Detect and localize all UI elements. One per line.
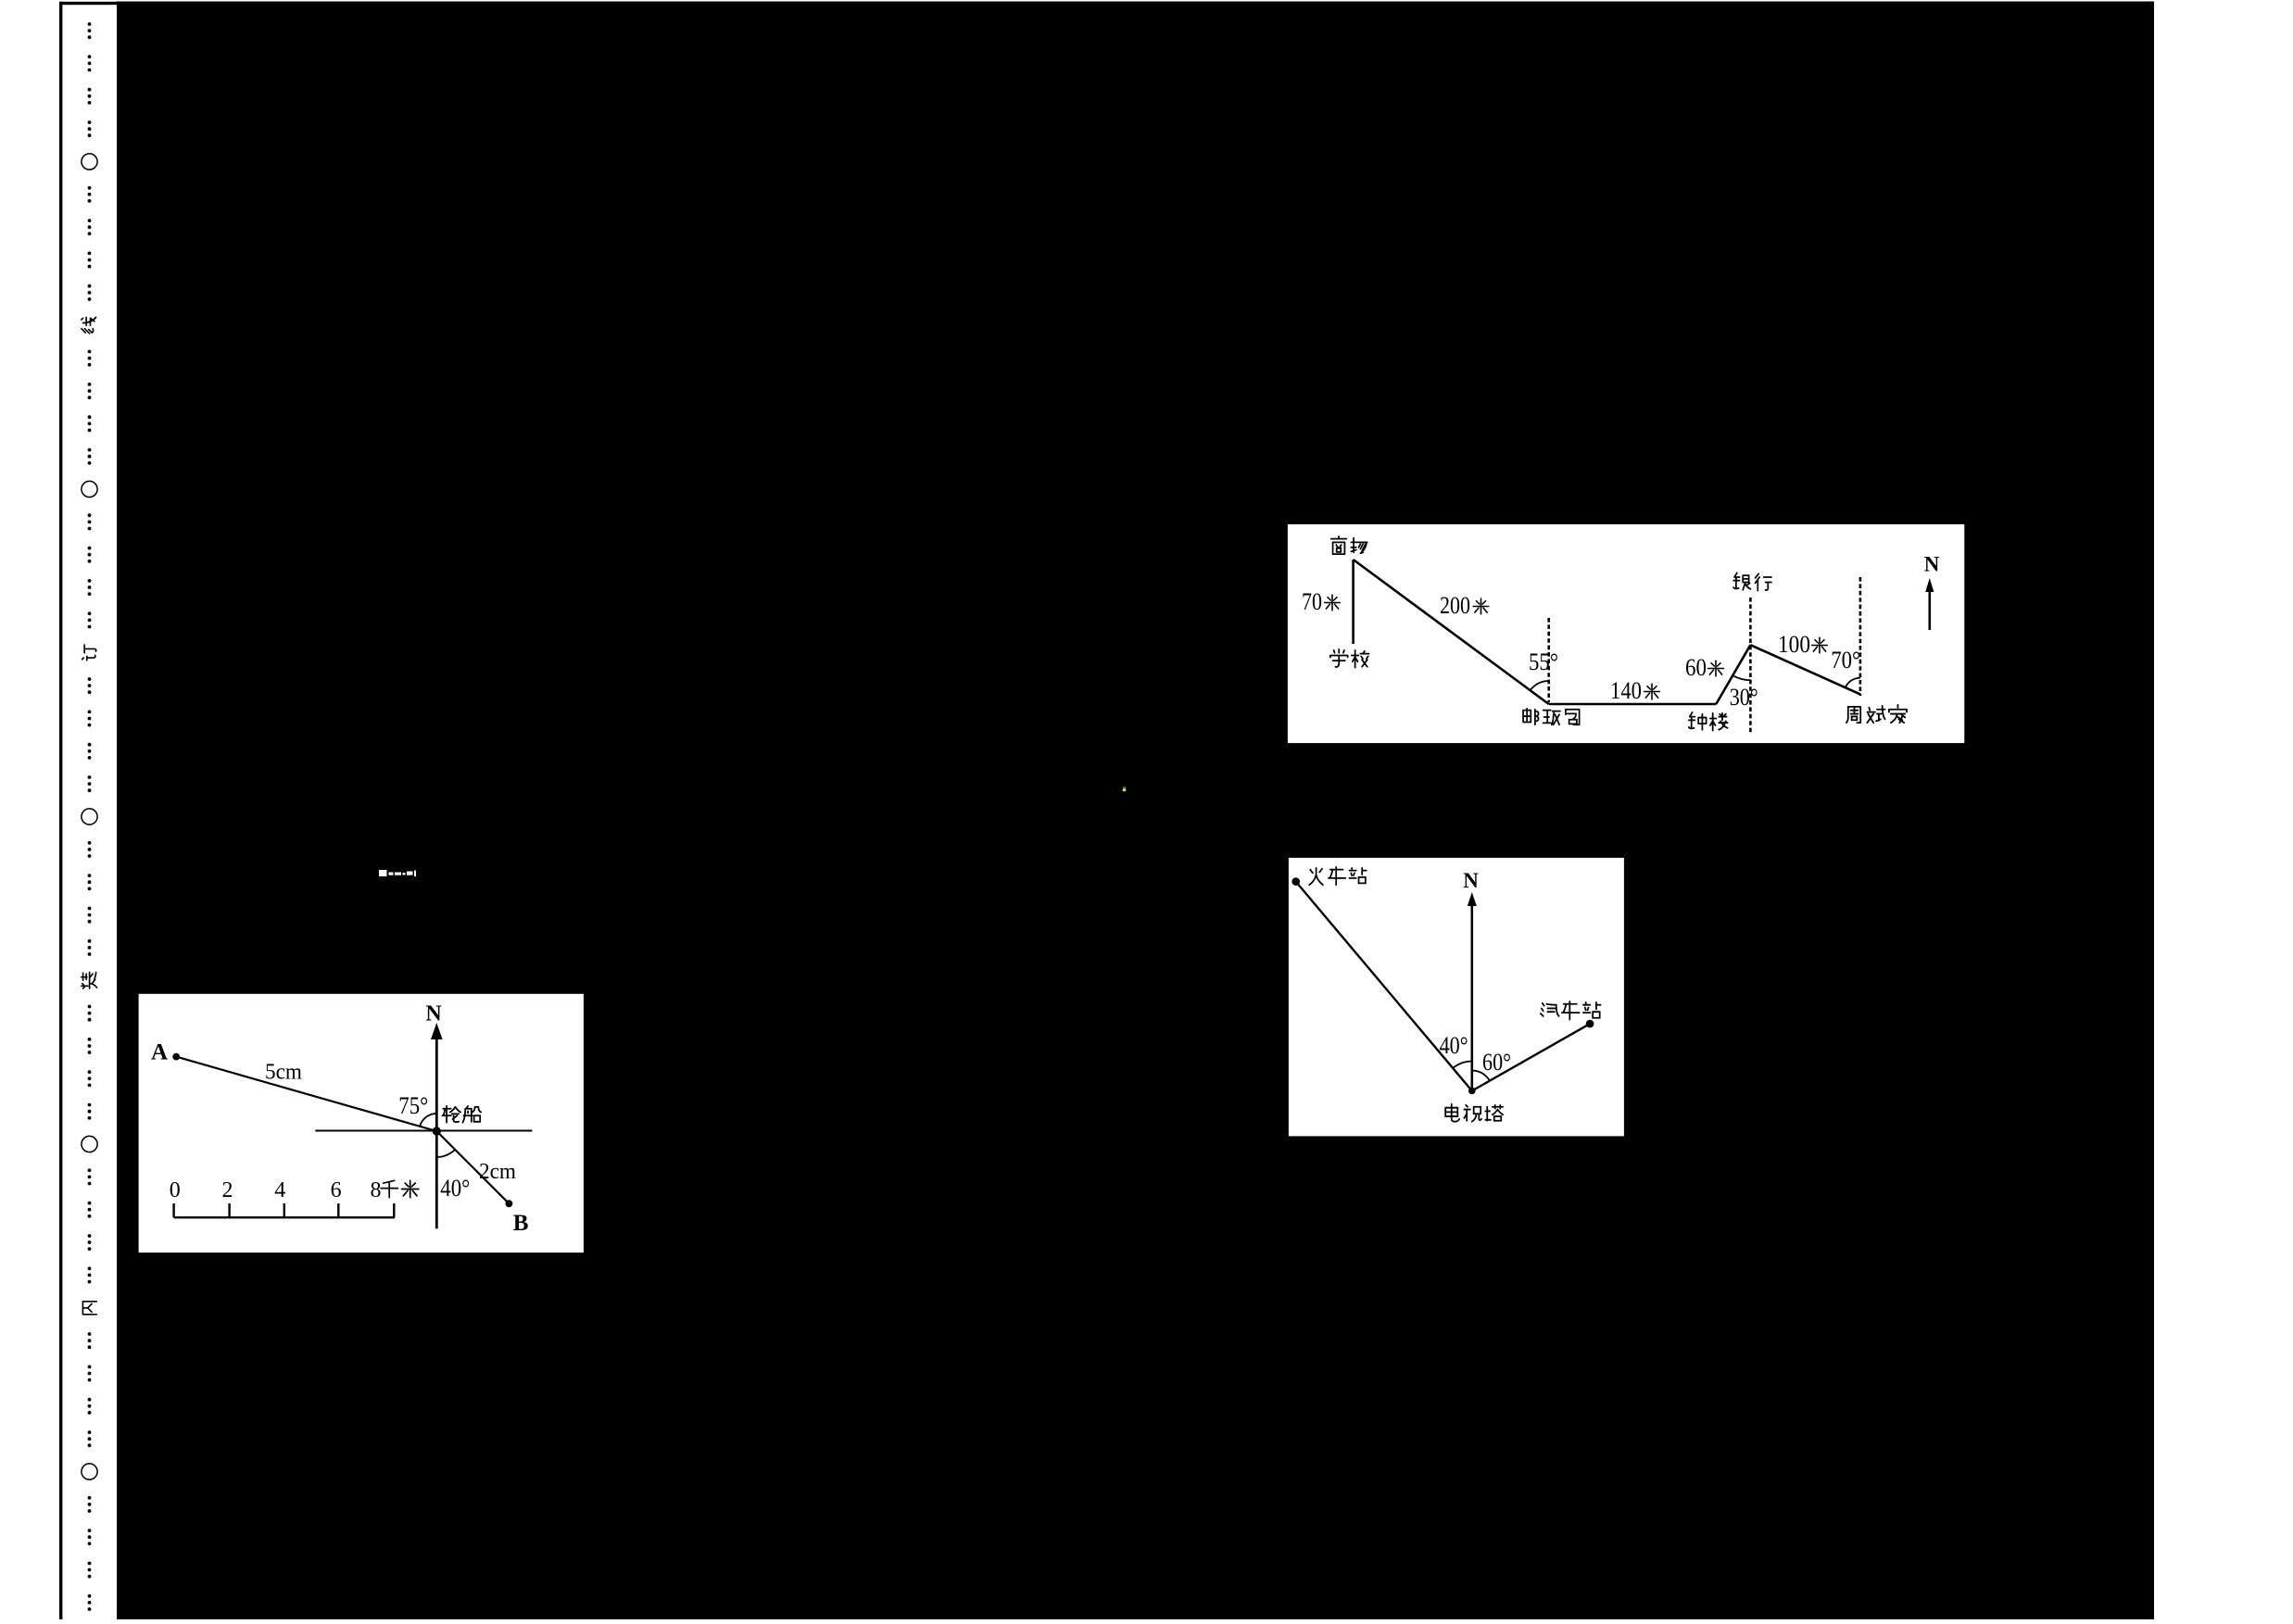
label 钟楼 [1689,712,1707,730]
arc 60 deg [1472,1071,1490,1081]
dashed vertical at 周斌家 [1859,577,1862,696]
scale bar ruler [174,1203,395,1217]
panel 2: 火车站 汽车站 电视塔 [1289,858,1624,1137]
tiny white artifact text [379,870,416,876]
binding margin vertical rule [59,2,62,1619]
panel 1: route map 商场-学校-邮政局-钟楼-银行-周斌家 [1288,524,1964,743]
svg-text:55°: 55° [1529,648,1558,675]
tiny yellow-green dot [1123,787,1126,788]
B dot [506,1200,513,1207]
ship dot [433,1127,441,1135]
arc 70 deg at 周斌家 [1846,678,1860,687]
svg-text:0: 0 [170,1178,181,1202]
svg-text:2: 2 [222,1178,233,1202]
line 火车站-电视塔 [1296,882,1472,1091]
label 汽车站 [1541,1003,1559,1016]
top rule across margin [59,2,2154,5]
svg-text:N: N [1924,553,1940,576]
N arrow panel3 [435,1036,438,1228]
svg-text:60°: 60° [1482,1049,1511,1076]
svg-text:30°: 30° [1730,684,1758,711]
svg-text:60: 60 [1685,654,1707,681]
line 电视塔-汽车站 [1472,1024,1590,1090]
svg-text:N: N [1463,869,1479,892]
svg-text:A: A [151,1040,168,1065]
horizontal line through 轮船 [315,1130,532,1132]
svg-text:70: 70 [1302,588,1322,615]
panel 3: A B 轮船 with scale bar [139,994,584,1253]
svg-text:70°: 70° [1831,647,1860,674]
svg-text:6: 6 [331,1178,342,1202]
tower dot [1468,1088,1476,1095]
bus station dot [1586,1020,1594,1028]
dashed vertical at 邮政局 [1547,618,1550,702]
svg-text:5cm: 5cm [265,1061,302,1085]
label 火车站 [1309,868,1323,885]
svg-text:8: 8 [371,1178,382,1202]
svg-text:100: 100 [1778,631,1810,658]
train station dot [1291,877,1300,886]
A dot [172,1053,180,1061]
line 邮政局-钟楼 [1549,703,1717,706]
arc 40 deg [1453,1062,1472,1069]
N arrow panel2 [1471,902,1474,1091]
binding dotted line with circles and 内装订线 characters [88,22,92,26]
label 商场 [1331,536,1347,554]
svg-text:2cm: 2cm [479,1160,516,1184]
dashed vertical at 银行 [1749,598,1752,733]
arc 30 deg at 银行 [1732,675,1750,680]
svg-text:140: 140 [1610,677,1642,704]
label 千米 [381,1180,397,1197]
arc 75 deg [420,1114,436,1127]
svg-text:75°: 75° [398,1092,428,1119]
label 轮船 [442,1106,460,1123]
label 学校 [1330,649,1348,667]
label 银行 [1733,573,1750,589]
svg-text:200: 200 [1440,592,1470,619]
line 商场-学校 [1352,560,1354,644]
svg-text:N: N [425,1002,442,1026]
label 周斌家 [1846,707,1860,723]
label 电视塔 [1445,1104,1459,1122]
arc 40 deg p3 [436,1150,455,1157]
svg-text:B: B [513,1211,529,1236]
line 商场-邮政局 [1354,560,1549,704]
line A-轮船 [176,1057,436,1131]
svg-text:40°: 40° [440,1175,470,1202]
svg-text:4: 4 [274,1178,285,1202]
line 轮船-B [436,1131,509,1203]
svg-text:40°: 40° [1440,1032,1468,1059]
arc 55 deg at 邮政局 [1531,681,1549,690]
N arrow panel1 [1929,589,1932,630]
label 邮政局 [1523,709,1539,724]
line 银行-周斌家 [1750,645,1860,694]
line 钟楼-银行 [1716,645,1750,704]
